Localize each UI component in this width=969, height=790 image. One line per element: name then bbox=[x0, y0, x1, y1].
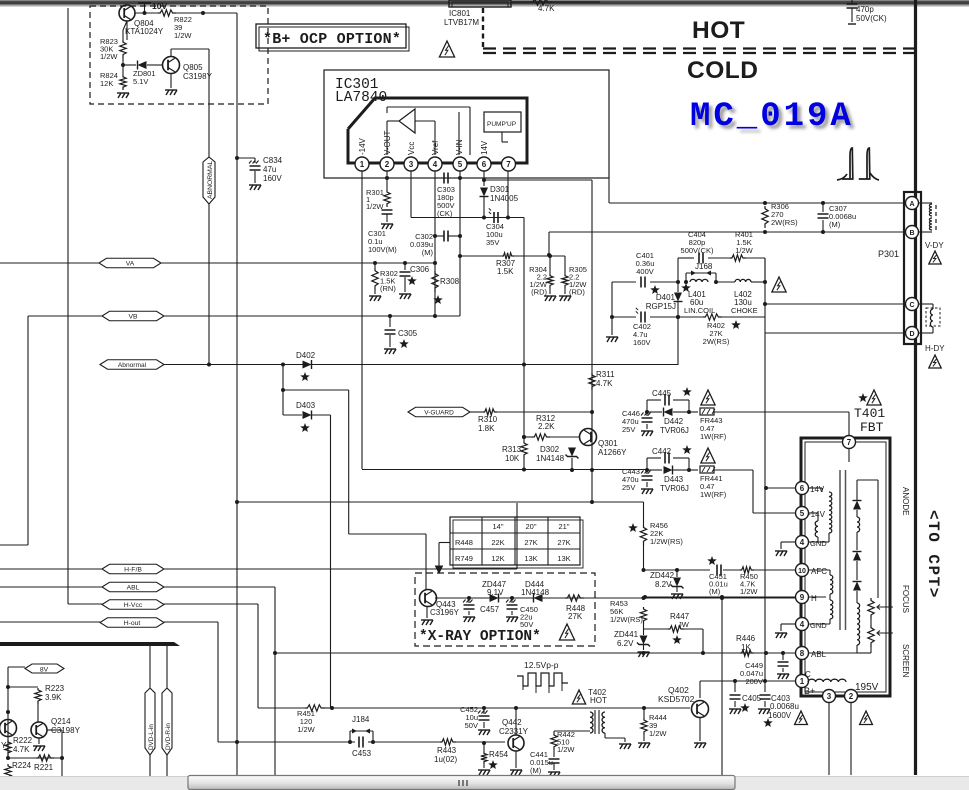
wire rail x332 bottom bbox=[331, 707, 332, 709]
capacitor C303 bbox=[444, 173, 448, 184]
svg-text:R443: R443 bbox=[437, 746, 457, 755]
wire X-RAY row bbox=[435, 597, 795, 599]
wire H row y597 bbox=[645, 596, 795, 598]
svg-text:-14V: -14V bbox=[358, 137, 367, 155]
transistor Q215 bbox=[0, 720, 17, 737]
net label ABNORMAL capsule bbox=[203, 157, 215, 204]
pin 4 IC301 bbox=[428, 157, 442, 171]
svg-text:0.0068u: 0.0068u bbox=[770, 702, 799, 711]
svg-text:(M): (M) bbox=[709, 587, 721, 596]
svg-text:25V: 25V bbox=[622, 425, 635, 434]
svg-text:1W(RF): 1W(RF) bbox=[700, 432, 727, 441]
warning triangle FR443 bbox=[701, 390, 715, 405]
junction y742 x237 bbox=[235, 740, 239, 744]
zener ZD447 bbox=[490, 594, 499, 602]
svg-text:2.2K: 2.2K bbox=[538, 422, 555, 431]
svg-text:GND: GND bbox=[810, 539, 827, 548]
svg-text:PUMP'UP: PUMP'UP bbox=[487, 121, 516, 128]
wire VB bbox=[164, 315, 460, 317]
svg-text:Q214: Q214 bbox=[51, 717, 71, 726]
svg-text:2: 2 bbox=[849, 692, 854, 701]
svg-text:ZD442: ZD442 bbox=[650, 571, 675, 580]
pin A P301 bbox=[906, 197, 919, 210]
svg-text:2W(RS): 2W(RS) bbox=[703, 337, 730, 346]
svg-text:5: 5 bbox=[800, 509, 805, 518]
svg-text:470p: 470p bbox=[856, 5, 874, 14]
wire IC301 to P301-A bbox=[608, 178, 610, 203]
flag VA bbox=[0, 262, 99, 264]
resistor R456 bbox=[643, 502, 645, 525]
svg-text:8V: 8V bbox=[40, 667, 49, 674]
resistor R313 bbox=[521, 441, 527, 458]
wire H-out bbox=[164, 621, 218, 623]
flag ABL bbox=[0, 586, 103, 588]
resistor R450 bbox=[740, 567, 754, 573]
FBT HV diode 3 bbox=[853, 582, 861, 591]
svg-text:A1266Y: A1266Y bbox=[598, 448, 627, 457]
wire C401 row bbox=[612, 281, 636, 283]
FBT bottom winding bbox=[808, 679, 846, 682]
svg-text:GND: GND bbox=[810, 621, 827, 630]
FBT winding -14V bbox=[809, 512, 818, 514]
pin 1 IC301 bbox=[355, 157, 369, 171]
svg-text:(M): (M) bbox=[422, 248, 434, 257]
FBT HV diode 2 bbox=[853, 552, 861, 561]
svg-text:1N4148: 1N4148 bbox=[536, 454, 565, 463]
svg-text:D401: D401 bbox=[656, 293, 676, 302]
svg-text:3.9K: 3.9K bbox=[45, 693, 62, 702]
transformer T402 bbox=[590, 712, 593, 733]
svg-text:Q805: Q805 bbox=[183, 63, 203, 72]
resistor R224 bbox=[5, 764, 11, 780]
capacitor C403 bbox=[764, 681, 766, 692]
label T401 FBT bbox=[858, 393, 868, 402]
capacitor C442 loop bbox=[645, 468, 649, 472]
svg-text:(RN): (RN) bbox=[380, 284, 396, 293]
resistor R448 bbox=[565, 595, 584, 601]
svg-text:T401: T401 bbox=[854, 406, 885, 421]
wire R221 row bbox=[8, 757, 62, 759]
svg-text:D: D bbox=[909, 331, 914, 338]
pin D P301 bbox=[906, 327, 919, 340]
capacitor C307 bbox=[821, 201, 825, 205]
pin 7 FBT bbox=[843, 436, 856, 449]
svg-text:V-IN: V-IN bbox=[455, 139, 464, 155]
transistor Q301 bbox=[580, 429, 597, 446]
svg-text:TVR06J: TVR06J bbox=[660, 426, 689, 435]
svg-text:-14V: -14V bbox=[808, 510, 826, 519]
svg-text:1/2W: 1/2W bbox=[740, 587, 758, 596]
flag H-F/B bbox=[0, 568, 103, 570]
warning triangle V-DY bbox=[929, 251, 941, 264]
svg-text:9: 9 bbox=[800, 593, 805, 602]
resistor R824 bbox=[120, 75, 126, 90]
svg-text:195V: 195V bbox=[855, 682, 879, 693]
svg-text:1u(02): 1u(02) bbox=[434, 755, 457, 764]
svg-text:8: 8 bbox=[800, 649, 805, 658]
thick vertical rail right bbox=[914, 0, 917, 775]
pin 2 IC301 bbox=[380, 157, 394, 171]
svg-text:R222: R222 bbox=[13, 736, 33, 745]
wire y390 to X-RAY bbox=[283, 389, 349, 391]
svg-text:1600V: 1600V bbox=[768, 711, 792, 720]
svg-text:(RD): (RD) bbox=[531, 288, 547, 297]
wire V-GUARD row bbox=[408, 407, 470, 417]
wire FBT pin3 down bbox=[828, 703, 830, 775]
resistor R401 bbox=[730, 255, 746, 261]
svg-text:Vref: Vref bbox=[431, 140, 440, 155]
svg-text:CHOKE: CHOKE bbox=[731, 306, 758, 315]
svg-text:(M): (M) bbox=[829, 220, 841, 229]
diode D301 bbox=[480, 188, 488, 197]
ground Q443 bbox=[426, 606, 428, 618]
flyback T401 FBT box bbox=[801, 438, 890, 696]
svg-text:Q442: Q442 bbox=[502, 718, 522, 727]
capacitor C302 bbox=[444, 231, 448, 242]
resistor R402 bbox=[676, 315, 680, 319]
svg-text:21": 21" bbox=[558, 522, 569, 531]
svg-text:B+: B+ bbox=[804, 686, 815, 696]
svg-text:H-DY: H-DY bbox=[925, 344, 945, 353]
capacitor C441 bbox=[553, 750, 555, 757]
svg-text:HOT: HOT bbox=[692, 17, 745, 44]
svg-text:Abnormal: Abnormal bbox=[118, 362, 147, 369]
svg-text:C3196Y: C3196Y bbox=[430, 608, 460, 617]
dashed box B+ OCP region bbox=[90, 6, 268, 104]
wire Abnormal riser x678 bbox=[677, 317, 679, 365]
svg-text:7: 7 bbox=[847, 438, 852, 447]
svg-text:5: 5 bbox=[458, 160, 463, 169]
wire VB corner bbox=[27, 316, 29, 545]
capacitor C457 bbox=[467, 596, 471, 600]
inductor L402 bbox=[735, 279, 751, 282]
svg-text:*B+ OCP OPTION*: *B+ OCP OPTION* bbox=[263, 31, 401, 48]
svg-text:V-GUARD: V-GUARD bbox=[424, 409, 454, 416]
svg-text:R313: R313 bbox=[502, 445, 522, 454]
fusible resistor FR441 bbox=[689, 469, 698, 471]
svg-text:C: C bbox=[909, 302, 914, 309]
wire 8V net bbox=[8, 666, 25, 668]
svg-text:A: A bbox=[909, 201, 914, 208]
svg-text:J168: J168 bbox=[695, 262, 713, 271]
waveform 12.5Vp-p bbox=[517, 673, 568, 686]
capacitor C805 470p bbox=[851, 0, 853, 4]
diode D443 bbox=[647, 469, 662, 471]
IC301 inner body bbox=[348, 98, 527, 163]
transistor Q442 bbox=[508, 735, 524, 751]
wire Q301 emitter bbox=[591, 445, 593, 470]
svg-text:47u: 47u bbox=[263, 165, 276, 174]
pin C P301 bbox=[906, 298, 919, 311]
wire mid horizontal y502 bbox=[235, 500, 239, 504]
svg-text:C3198Y: C3198Y bbox=[183, 72, 213, 81]
FBT core bbox=[839, 470, 841, 630]
svg-text:R454: R454 bbox=[489, 750, 509, 759]
resistor R444 bbox=[643, 708, 645, 718]
wire VA bbox=[161, 262, 435, 264]
svg-text:27K: 27K bbox=[557, 538, 570, 547]
svg-text:FBT: FBT bbox=[860, 420, 884, 435]
wire pin7 bbox=[507, 171, 509, 218]
wire H-drive row y742 bbox=[218, 741, 355, 743]
capacitor C452 bbox=[483, 708, 485, 714]
ground FBT pin4 bbox=[781, 541, 795, 543]
diode D401 bbox=[674, 293, 682, 302]
svg-text:KTA1024Y: KTA1024Y bbox=[125, 27, 164, 36]
capacitor C446 bbox=[646, 412, 648, 416]
transistor Q443 bbox=[420, 590, 437, 607]
svg-text:H: H bbox=[811, 594, 817, 603]
svg-text:10V: 10V bbox=[152, 1, 167, 11]
wire Q443 base bbox=[425, 589, 427, 590]
svg-text:H-F/B: H-F/B bbox=[124, 566, 142, 573]
svg-text:14V: 14V bbox=[810, 485, 825, 494]
wire T402 connections bbox=[533, 730, 590, 732]
svg-text:6: 6 bbox=[800, 484, 805, 493]
resistor R304 bbox=[548, 254, 552, 258]
svg-text:C2331Y: C2331Y bbox=[499, 727, 529, 736]
wire ABNORMAL down bbox=[208, 204, 210, 364]
resistor R306 bbox=[763, 201, 767, 205]
svg-text:8.2V: 8.2V bbox=[655, 580, 672, 589]
resistor 4.7K top bbox=[512, 1, 600, 3]
svg-text:160V: 160V bbox=[263, 174, 282, 183]
svg-text:FOCUS: FOCUS bbox=[901, 585, 910, 613]
jumper J168 bbox=[685, 273, 687, 282]
warning triangle X-RAY bbox=[559, 624, 574, 640]
svg-text:B: B bbox=[909, 230, 914, 237]
svg-text:(RD): (RD) bbox=[569, 288, 585, 297]
wire ABL bbox=[164, 586, 275, 588]
svg-text:1N4005: 1N4005 bbox=[490, 194, 519, 203]
svg-text:1.8K: 1.8K bbox=[478, 424, 495, 433]
capacitor C453 bbox=[359, 737, 363, 748]
svg-text:R446: R446 bbox=[736, 634, 756, 643]
resistor R822 bbox=[158, 10, 176, 16]
svg-text:J184: J184 bbox=[352, 715, 370, 724]
wire B+ row y681 bbox=[700, 680, 795, 682]
svg-text:4.7K: 4.7K bbox=[596, 379, 613, 388]
svg-text:C834: C834 bbox=[263, 156, 283, 165]
label T402 HOT bbox=[572, 690, 585, 704]
svg-text:1/2W(RS): 1/2W(RS) bbox=[650, 537, 683, 546]
wire pin4 rail bbox=[434, 171, 436, 316]
svg-text:1/2W: 1/2W bbox=[649, 729, 667, 738]
resistor R823 bbox=[120, 40, 126, 58]
svg-text:500V(CK): 500V(CK) bbox=[681, 246, 714, 255]
svg-text:C: C bbox=[805, 670, 811, 679]
capacitor C401 bbox=[641, 277, 645, 288]
svg-text:C445: C445 bbox=[652, 389, 672, 398]
svg-text:4: 4 bbox=[800, 538, 805, 547]
zener ZD801 bbox=[123, 64, 136, 66]
diode D403 bbox=[303, 411, 312, 419]
capacitor C304 bbox=[482, 216, 486, 220]
svg-text:R223: R223 bbox=[45, 684, 65, 693]
svg-text:TVR06J: TVR06J bbox=[660, 484, 689, 493]
svg-text:1W(RF): 1W(RF) bbox=[700, 490, 727, 499]
svg-text:50V: 50V bbox=[520, 620, 533, 629]
capacitor C306 bbox=[403, 261, 407, 265]
svg-text:VA: VA bbox=[126, 260, 135, 267]
resistor R454 bbox=[482, 741, 486, 745]
inductor L401 bbox=[690, 279, 708, 282]
ground Q805 bbox=[170, 73, 172, 88]
svg-text:R221: R221 bbox=[34, 763, 54, 772]
resistor R222 bbox=[5, 740, 11, 756]
svg-text:Vcc: Vcc bbox=[407, 142, 416, 155]
svg-text:100V(M): 100V(M) bbox=[368, 245, 397, 254]
svg-text:R310: R310 bbox=[478, 415, 498, 424]
wire pin3 rail Vcc bbox=[410, 171, 412, 218]
wire pin6 net D301 bbox=[483, 171, 485, 186]
svg-text:1/2W: 1/2W bbox=[100, 52, 118, 61]
ground Q402 bbox=[699, 718, 701, 741]
svg-text:5.1V: 5.1V bbox=[133, 77, 148, 86]
svg-text:12K: 12K bbox=[100, 79, 113, 88]
ground FBT pin4b bbox=[781, 623, 795, 625]
capacitor C445 loop bbox=[645, 410, 649, 414]
pin 4 FBT GND bbox=[796, 536, 809, 549]
op-amp triangle in IC301 bbox=[399, 109, 415, 133]
svg-text:DVD-L-in: DVD-L-in bbox=[148, 724, 155, 750]
resistor R442 bbox=[553, 731, 555, 733]
transistor Q805 bbox=[163, 57, 180, 74]
power rail 10V bbox=[138, 2, 151, 4]
FBT HV coil 2 bbox=[857, 603, 860, 645]
resistor R301 bbox=[386, 171, 388, 190]
svg-text:10: 10 bbox=[798, 568, 806, 575]
svg-text:2: 2 bbox=[385, 160, 390, 169]
svg-text:C305: C305 bbox=[398, 329, 418, 338]
svg-text:D301: D301 bbox=[490, 185, 510, 194]
diode D302 bbox=[570, 468, 574, 472]
wire pin6 to x592 rail bbox=[484, 179, 592, 181]
svg-text:ABL: ABL bbox=[127, 584, 140, 591]
IC block IC301 outer box bbox=[324, 70, 609, 178]
svg-text:27K: 27K bbox=[524, 538, 537, 547]
warning triangle L402 bbox=[772, 277, 786, 292]
fusible resistor FR443 bbox=[689, 411, 698, 413]
transistor Q402 bbox=[692, 701, 709, 718]
FBT focus pot bbox=[868, 598, 874, 619]
svg-text:R749: R749 bbox=[455, 554, 473, 563]
wire y708 row bbox=[332, 707, 690, 709]
resistor R221 bbox=[36, 755, 54, 761]
svg-text:<TO CPT>: <TO CPT> bbox=[924, 510, 942, 599]
wire Q805 collector to ABNORMAL bbox=[170, 49, 172, 57]
svg-text:25V: 25V bbox=[622, 483, 635, 492]
V-DY deflection coil bbox=[919, 202, 932, 204]
svg-text:D302: D302 bbox=[540, 445, 560, 454]
svg-text:(CK): (CK) bbox=[437, 209, 453, 218]
svg-text:LIN.COIL: LIN.COIL bbox=[684, 306, 715, 315]
svg-text:HOT: HOT bbox=[590, 696, 607, 705]
H-DY deflection coil bbox=[919, 303, 933, 305]
svg-text:2W(RS): 2W(RS) bbox=[771, 218, 798, 227]
capsule DVD-L-in bbox=[149, 646, 151, 688]
dashed wire IC801 bbox=[482, 8, 484, 49]
svg-text:400V: 400V bbox=[636, 267, 654, 276]
wire B row bbox=[548, 232, 550, 255]
svg-text:9.1V: 9.1V bbox=[487, 588, 504, 597]
wire left rail x237 bbox=[236, 13, 238, 777]
capacitor C450 bbox=[510, 596, 514, 600]
wire -14V emitter rail bbox=[362, 469, 647, 471]
svg-text:D403: D403 bbox=[296, 401, 316, 410]
dashed separator HOT-COLD bbox=[483, 49, 914, 54]
resistor R446 bbox=[740, 650, 754, 656]
flag Abnormal bbox=[100, 360, 164, 370]
flag 8V bbox=[25, 664, 64, 673]
svg-text:6: 6 bbox=[482, 160, 487, 169]
wire table to X-RAY bbox=[439, 542, 450, 544]
ground Q214 bbox=[38, 738, 40, 744]
resistor R305 bbox=[564, 256, 566, 274]
resistor R447 bbox=[644, 628, 669, 630]
wire FR441 to FBT pin5 bbox=[752, 470, 754, 513]
wire Vcc rail x524 down bbox=[523, 218, 525, 438]
svg-text:V-DY: V-DY bbox=[925, 241, 944, 250]
wire Q402 collector bbox=[699, 681, 701, 698]
svg-text:1/2W: 1/2W bbox=[174, 31, 192, 40]
capacitor C405 bbox=[734, 681, 736, 692]
IC301 internal wires bbox=[386, 107, 388, 113]
diode D444 bbox=[534, 594, 543, 602]
svg-text:MC_019A: MC_019A bbox=[690, 98, 854, 136]
svg-text:C306: C306 bbox=[410, 265, 430, 274]
svg-text:3: 3 bbox=[409, 160, 414, 169]
FBT ABL row internal bbox=[809, 652, 857, 654]
svg-text:10K: 10K bbox=[505, 454, 520, 463]
svg-text:C442: C442 bbox=[652, 447, 672, 456]
warning triangle FR441 bbox=[701, 448, 715, 463]
resistor R302 bbox=[373, 261, 377, 265]
svg-text:ABL: ABL bbox=[811, 650, 827, 659]
dashed box X-RAY OPTION bbox=[415, 573, 595, 646]
node R823/R824 bbox=[121, 63, 125, 67]
svg-text:P301: P301 bbox=[878, 249, 899, 259]
capacitor C443 bbox=[646, 470, 648, 474]
svg-text:14": 14" bbox=[492, 522, 503, 531]
svg-text:12.5Vp-p: 12.5Vp-p bbox=[524, 660, 559, 670]
wire AFC row y570 bbox=[644, 569, 711, 571]
diode D442 bbox=[647, 411, 662, 413]
table screen sizes bbox=[450, 517, 580, 565]
svg-text:ANODE: ANODE bbox=[901, 487, 910, 515]
resistor R308 bbox=[432, 271, 438, 292]
svg-text:DVD-R-in: DVD-R-in bbox=[165, 723, 172, 750]
svg-text:20": 20" bbox=[525, 522, 536, 531]
wire ABL row y653 bbox=[275, 652, 795, 654]
svg-text:ZD441: ZD441 bbox=[614, 630, 639, 639]
pin 3 FBT bbox=[823, 690, 836, 703]
svg-text:14V: 14V bbox=[480, 140, 489, 155]
label box *B+ OCP OPTION* bbox=[256, 24, 406, 48]
svg-text:V-OUT: V-OUT bbox=[383, 130, 392, 155]
wire Q301 collector bbox=[591, 412, 593, 429]
svg-text:R311: R311 bbox=[596, 370, 615, 379]
wire Q804 collector bbox=[126, 21, 128, 40]
resistor R312 bbox=[522, 435, 526, 439]
svg-text:1: 1 bbox=[360, 160, 365, 169]
wire pin1 -14V rail bbox=[361, 171, 363, 469]
resistor R307 bbox=[458, 254, 462, 258]
ground R824 bbox=[117, 93, 129, 98]
resistor R223 bbox=[8, 686, 38, 688]
svg-text:13K: 13K bbox=[524, 554, 537, 563]
FBT HV coil 1 bbox=[857, 517, 860, 532]
